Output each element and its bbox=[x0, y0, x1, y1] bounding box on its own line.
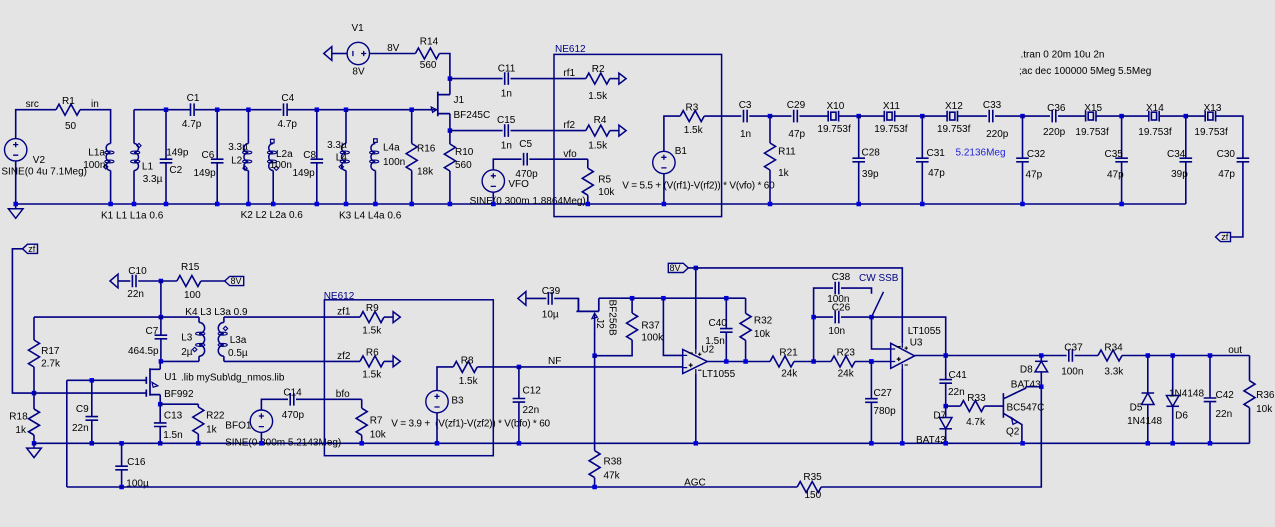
junction U2 V- bottom bbox=[694, 441, 699, 446]
svg-text:J2: J2 bbox=[594, 318, 605, 329]
JFET J2 rotated bbox=[576, 298, 598, 311]
svg-text:C37: C37 bbox=[1064, 342, 1083, 353]
junction L1 bottom bbox=[132, 202, 137, 207]
output port arrow rf1 bbox=[619, 73, 626, 84]
top rail segment C1 to C4 bbox=[195, 109, 282, 111]
svg-text:L2a: L2a bbox=[276, 149, 293, 160]
resistor R5 bbox=[587, 159, 589, 168]
upper rail J2 drain to R32 bbox=[599, 297, 746, 299]
svg-text:R10: R10 bbox=[455, 147, 474, 158]
wire V1 to R14, net 8V bbox=[370, 53, 416, 55]
wire node down to zf1 row bbox=[160, 281, 162, 317]
junction U3 V- bottom bbox=[900, 441, 905, 446]
svg-text:zf2: zf2 bbox=[337, 351, 351, 362]
svg-text:C6: C6 bbox=[202, 150, 215, 161]
pin rf2 bbox=[554, 130, 586, 132]
svg-text:47p: 47p bbox=[788, 129, 805, 140]
junction L2a bottom bbox=[271, 202, 276, 207]
capacitor C15 bbox=[505, 124, 509, 137]
wire X10 to node bbox=[839, 115, 859, 117]
capacitor C11 bbox=[505, 72, 509, 85]
junction C6 bottom bbox=[215, 202, 220, 207]
svg-text:C30: C30 bbox=[1217, 149, 1236, 160]
resistor R32 bbox=[745, 298, 747, 313]
svg-text:V1: V1 bbox=[352, 23, 365, 34]
wire C38 right to switch contact bbox=[841, 288, 872, 294]
svg-text:B1: B1 bbox=[675, 146, 688, 157]
U2 V- to ground bbox=[695, 374, 697, 444]
junction D6 top bbox=[1170, 353, 1175, 358]
switch CW SSB bbox=[872, 292, 884, 317]
wire Q2 collector bbox=[1026, 386, 1042, 388]
svg-text:X14: X14 bbox=[1146, 103, 1164, 114]
junction drain node bbox=[159, 359, 164, 364]
svg-text:LT1055: LT1055 bbox=[908, 326, 942, 337]
capacitor C12 bbox=[518, 367, 520, 398]
wire R15 to 8V flag bbox=[201, 280, 225, 282]
svg-text:K1 L1 L1a 0.6: K1 L1 L1a 0.6 bbox=[101, 210, 164, 221]
capacitor C6 bbox=[211, 159, 224, 163]
svg-text:AGC: AGC bbox=[684, 477, 706, 488]
resistor R6 bbox=[324, 360, 360, 362]
svg-text:D5: D5 bbox=[1130, 402, 1143, 413]
junction C26 left bbox=[811, 315, 816, 320]
diode D7 BAT43 bbox=[939, 418, 952, 429]
wire source node to R22 bbox=[160, 403, 198, 405]
resistor R15 bbox=[161, 280, 177, 282]
svg-text:8V: 8V bbox=[352, 66, 365, 77]
svg-text:NE612: NE612 bbox=[555, 44, 586, 55]
svg-text:NF: NF bbox=[548, 356, 561, 367]
junction C28 bottom bbox=[856, 202, 861, 207]
svg-text:0.5µ: 0.5µ bbox=[228, 348, 248, 359]
inductor L1 bbox=[134, 144, 139, 171]
junction 8V bbox=[694, 266, 699, 271]
junction R16 top bbox=[409, 107, 414, 112]
crystal X14 bbox=[1149, 111, 1159, 122]
junction R5 bottom bbox=[586, 202, 591, 207]
svg-text:R17: R17 bbox=[41, 346, 60, 357]
capacitor C38 bbox=[835, 282, 839, 295]
wire zf to gate1 node bbox=[12, 249, 34, 393]
svg-text:100n: 100n bbox=[1061, 367, 1083, 378]
svg-text:R38: R38 bbox=[604, 456, 623, 467]
svg-text:39p: 39p bbox=[1171, 169, 1188, 180]
port flag at V1 bbox=[324, 47, 332, 61]
wire C14 to R7 (bfo row) bbox=[296, 398, 362, 400]
svg-text:1N4148: 1N4148 bbox=[1127, 416, 1162, 427]
svg-text:560: 560 bbox=[420, 60, 437, 71]
svg-text:C14: C14 bbox=[283, 387, 302, 398]
svg-text:SINE(0 300m 1.8864Meg): SINE(0 300m 1.8864Meg) bbox=[470, 196, 586, 207]
output port arrow zf2 bbox=[393, 356, 400, 367]
junction J2 source/R37 bbox=[592, 353, 597, 358]
svg-text:100k: 100k bbox=[641, 333, 664, 344]
svg-text:L1: L1 bbox=[142, 162, 154, 173]
svg-text:19.753f: 19.753f bbox=[1075, 127, 1109, 138]
junction R22 bottom bbox=[196, 441, 201, 446]
svg-text:C33: C33 bbox=[983, 100, 1002, 111]
junction R16 bottom bbox=[409, 202, 414, 207]
svg-text:V = 3.9 + (V(zf1)-V(zf2)) * V: V = 3.9 + (V(zf1)-V(zf2)) * V(bfo) * 60 bbox=[391, 418, 550, 429]
svg-text:R5: R5 bbox=[598, 175, 611, 186]
svg-text:19.753f: 19.753f bbox=[937, 124, 971, 135]
svg-text:19.753f: 19.753f bbox=[817, 124, 851, 135]
inductor L3a bbox=[218, 322, 224, 356]
svg-text:C38: C38 bbox=[832, 272, 851, 283]
svg-text:R8: R8 bbox=[461, 355, 474, 366]
svg-text:K2 L2 L2a 0.6: K2 L2 L2a 0.6 bbox=[241, 210, 304, 221]
svg-text:R2: R2 bbox=[592, 64, 605, 75]
svg-text:C9: C9 bbox=[76, 404, 89, 415]
capacitor C4 bbox=[284, 103, 288, 116]
wire R4 to port bbox=[610, 130, 619, 132]
svg-text:U2: U2 bbox=[701, 344, 714, 355]
junction C16 bottom bbox=[119, 485, 124, 490]
ground at R18 bbox=[27, 443, 42, 457]
wire V2 top to src/R1 bbox=[16, 110, 56, 139]
capacitor C41 bbox=[945, 356, 947, 380]
svg-text:in: in bbox=[91, 99, 99, 110]
capacitor C31 bbox=[921, 116, 923, 158]
wire to X12 bbox=[922, 115, 947, 117]
port flag at C39 bbox=[518, 292, 526, 306]
inductor L2 bbox=[244, 144, 248, 171]
junction L1a bottom bbox=[108, 202, 113, 207]
svg-text:100n: 100n bbox=[383, 157, 405, 168]
svg-text:B3: B3 bbox=[451, 396, 464, 407]
resistor R17 bbox=[33, 317, 35, 340]
wire R14 to drain node bbox=[439, 54, 450, 79]
svg-text:47p: 47p bbox=[1026, 170, 1043, 181]
resistor R18 bbox=[33, 393, 35, 409]
svg-text:L2: L2 bbox=[231, 155, 243, 166]
junction C8 bottom bbox=[315, 202, 320, 207]
junction C16 top bbox=[119, 441, 124, 446]
junction R21/R23/C38 node bbox=[811, 359, 816, 364]
diode D6 1N4148 bbox=[1172, 356, 1174, 396]
svg-text:470p: 470p bbox=[515, 169, 538, 180]
svg-text:22n: 22n bbox=[948, 387, 965, 398]
resistor R23 bbox=[814, 361, 831, 363]
svg-text:8V: 8V bbox=[387, 43, 400, 54]
resistor R10 bbox=[449, 131, 451, 144]
svg-text:rf1: rf1 bbox=[563, 68, 575, 79]
svg-text:NE612: NE612 bbox=[324, 291, 355, 302]
junction VFO bottom bbox=[491, 202, 496, 207]
junction C7 top bbox=[159, 315, 164, 320]
wire U1 source bbox=[159, 395, 161, 405]
svg-text:R9: R9 bbox=[366, 303, 379, 314]
svg-text:U1: U1 bbox=[164, 372, 177, 383]
svg-text:C39: C39 bbox=[542, 286, 561, 297]
wire C30 down to zf flag bbox=[1231, 162, 1243, 237]
feedback wire to U3 output bbox=[872, 317, 946, 355]
capacitor C29 bbox=[794, 110, 798, 123]
wire port to V1 bbox=[332, 53, 347, 55]
junction C40 bottom bbox=[724, 359, 729, 364]
svg-text:R36: R36 bbox=[1256, 390, 1275, 401]
svg-text:R23: R23 bbox=[837, 347, 856, 358]
svg-text:C32: C32 bbox=[1027, 149, 1046, 160]
wire B3 top to R8 bbox=[437, 367, 453, 391]
wire X11 to node bbox=[895, 115, 923, 117]
wire zf2 L3a to NE612 box 2 bbox=[224, 360, 325, 362]
junction C35 top bbox=[1119, 114, 1124, 119]
resistor R11 bbox=[769, 116, 771, 143]
svg-text:464.5p: 464.5p bbox=[128, 346, 159, 357]
svg-text:V = 5.5 + (V(rf1)-V(rf2)) * V(: V = 5.5 + (V(rf1)-V(rf2)) * V(vfo) * 60 bbox=[622, 180, 775, 191]
svg-text:10k: 10k bbox=[598, 187, 615, 198]
capacitor C7 bbox=[155, 335, 168, 339]
voltage source VFO bbox=[482, 170, 504, 192]
capacitor C8 bbox=[311, 159, 324, 163]
wire port to C39 bbox=[526, 297, 546, 299]
svg-text:out: out bbox=[1228, 345, 1242, 356]
ground at V2 bbox=[8, 204, 23, 218]
junction C12 bottom bbox=[517, 441, 522, 446]
svg-text:C8: C8 bbox=[303, 150, 316, 161]
svg-text:C41: C41 bbox=[949, 370, 968, 381]
svg-text:C34: C34 bbox=[1167, 149, 1186, 160]
junction C6 top bbox=[215, 107, 220, 112]
resistor R7 bbox=[361, 399, 363, 408]
svg-text:R1: R1 bbox=[62, 96, 75, 107]
capacitor C13 bbox=[159, 404, 161, 423]
junction D5 top bbox=[1146, 353, 1151, 358]
resistor R1 bbox=[56, 104, 80, 115]
svg-text:4.7k: 4.7k bbox=[966, 417, 986, 428]
junction C40 top bbox=[724, 296, 729, 301]
junction R37 top bbox=[630, 296, 635, 301]
svg-text:C29: C29 bbox=[787, 100, 806, 111]
svg-text:R6: R6 bbox=[366, 347, 379, 358]
wire C15 to NE612 rf2 bbox=[511, 130, 555, 132]
svg-text:R16: R16 bbox=[417, 144, 436, 155]
inductor L2a bbox=[269, 144, 274, 171]
wire rail to U2 minus input bbox=[663, 298, 682, 355]
wire J2 source down bbox=[594, 314, 596, 356]
svg-text:1n: 1n bbox=[740, 129, 751, 140]
svg-text:3.3µ: 3.3µ bbox=[228, 142, 248, 153]
AGC line right bbox=[821, 387, 1041, 487]
svg-text:;ac dec 100000 5Meg 5.5Meg: ;ac dec 100000 5Meg 5.5Meg bbox=[1019, 66, 1151, 77]
junction R11 top bbox=[768, 114, 773, 119]
svg-text:X12: X12 bbox=[945, 101, 963, 112]
resistor R14 bbox=[415, 48, 439, 59]
capacitor C42 bbox=[1209, 356, 1211, 398]
capacitor C37 bbox=[1069, 349, 1073, 362]
svg-text:19.753f: 19.753f bbox=[874, 124, 908, 135]
svg-text:C2: C2 bbox=[169, 165, 182, 176]
svg-text:1N4148: 1N4148 bbox=[1169, 389, 1204, 400]
out row bbox=[1122, 355, 1250, 357]
junction C12 top bbox=[517, 365, 522, 370]
svg-text:R22: R22 bbox=[206, 411, 225, 422]
wire R6 to port bbox=[384, 360, 393, 362]
svg-text:X11: X11 bbox=[883, 101, 900, 112]
op-amp U2 LT1055 bbox=[683, 349, 708, 373]
junction L4a bottom bbox=[373, 202, 378, 207]
wire C11 to NE612 rf1 bbox=[511, 78, 555, 80]
wire X12 to C33 bbox=[958, 115, 988, 117]
svg-text:47p: 47p bbox=[1218, 169, 1235, 180]
svg-text:C15: C15 bbox=[497, 115, 516, 126]
svg-text:47p: 47p bbox=[928, 168, 945, 179]
net flag 8V left bbox=[225, 276, 244, 285]
wire source to C15 bbox=[450, 130, 503, 132]
junction C41 bottom bbox=[943, 404, 948, 409]
top rail segment L1 to C1 bbox=[134, 109, 191, 111]
wire U1 drain bbox=[159, 361, 161, 369]
junction C32 top bbox=[1020, 114, 1025, 119]
capacitor C27 bbox=[870, 362, 872, 399]
junction C31 bottom bbox=[920, 202, 925, 207]
svg-text:149p: 149p bbox=[293, 168, 316, 179]
svg-text:bfo: bfo bbox=[336, 389, 350, 400]
voltage source V2 bbox=[5, 139, 27, 161]
resistor R33 bbox=[946, 405, 961, 407]
svg-text:.lib mySub\dg_nmos.lib: .lib mySub\dg_nmos.lib bbox=[181, 372, 285, 383]
svg-text:zf: zf bbox=[28, 244, 36, 254]
wire to X11 bbox=[859, 115, 885, 117]
svg-text:R3: R3 bbox=[686, 103, 699, 114]
capacitor C16 bbox=[121, 443, 123, 466]
wire gate1 row bbox=[34, 392, 146, 394]
net flag zf right bbox=[1216, 232, 1231, 241]
svg-text:C7: C7 bbox=[146, 326, 159, 337]
wire X15 to node bbox=[1096, 115, 1122, 117]
capacitor C10 bbox=[132, 275, 136, 288]
svg-text:.tran 0 20m 10u 2n: .tran 0 20m 10u 2n bbox=[1021, 50, 1105, 61]
svg-text:L3a: L3a bbox=[230, 335, 247, 346]
svg-text:BAT43: BAT43 bbox=[916, 435, 946, 446]
svg-text:D7: D7 bbox=[933, 411, 946, 422]
capacitor C40 bbox=[725, 298, 727, 328]
output port arrow zf1 bbox=[393, 312, 400, 323]
svg-text:D8: D8 bbox=[1020, 365, 1033, 376]
junction J1 drain node bbox=[448, 76, 453, 81]
svg-text:22n: 22n bbox=[523, 405, 540, 416]
net flag zf top left bbox=[23, 244, 38, 253]
svg-text:R32: R32 bbox=[754, 315, 773, 326]
svg-text:C42: C42 bbox=[1216, 390, 1235, 401]
svg-text:22n: 22n bbox=[72, 423, 89, 434]
capacitor C32 bbox=[1022, 116, 1024, 158]
resistor R2 bbox=[586, 73, 610, 84]
transistor Q2 BC547C bbox=[1003, 387, 1025, 444]
svg-text:19.753f: 19.753f bbox=[1138, 127, 1172, 138]
junction L2 bottom bbox=[246, 202, 251, 207]
svg-text:1.5k: 1.5k bbox=[588, 91, 608, 102]
svg-text:1n: 1n bbox=[501, 88, 512, 99]
junction C28 top bbox=[856, 114, 861, 119]
resistor R8 bbox=[453, 361, 477, 372]
junction C9 bottom bbox=[90, 441, 95, 446]
resistor R3 bbox=[680, 111, 704, 122]
resistor R22 bbox=[197, 404, 199, 407]
junction C42 top bbox=[1208, 353, 1213, 358]
capacitor C34 bbox=[1185, 116, 1187, 158]
wire BFO1 top to C14 bbox=[261, 399, 288, 410]
svg-text:C27: C27 bbox=[874, 388, 893, 399]
svg-text:3.3µ: 3.3µ bbox=[327, 140, 347, 151]
wire C37 to R34 bbox=[1075, 355, 1098, 357]
svg-text:X10: X10 bbox=[827, 101, 845, 112]
capacitor C26 bbox=[814, 316, 833, 318]
junction D6 bottom bbox=[1170, 441, 1175, 446]
svg-text:zf1: zf1 bbox=[337, 307, 351, 318]
capacitor C33 bbox=[989, 110, 993, 123]
capacitor C5 bbox=[524, 153, 528, 166]
junction C2 top bbox=[164, 107, 169, 112]
svg-text:47p: 47p bbox=[1107, 170, 1124, 181]
svg-text:4.7p: 4.7p bbox=[182, 119, 202, 130]
svg-text:560: 560 bbox=[455, 160, 472, 171]
inductor L1a bbox=[106, 144, 111, 171]
junction C31 top bbox=[920, 114, 925, 119]
junction U3+ node bbox=[869, 359, 874, 364]
svg-text:10k: 10k bbox=[1256, 404, 1273, 415]
svg-text:zf: zf bbox=[1221, 232, 1229, 242]
svg-text:J1: J1 bbox=[454, 95, 465, 106]
svg-text:R34: R34 bbox=[1104, 342, 1123, 353]
crystal X11 bbox=[884, 111, 894, 122]
resistor R38 bbox=[589, 451, 600, 478]
top rail segment C4 to J1 gate bbox=[287, 109, 438, 111]
svg-text:10n: 10n bbox=[828, 326, 845, 337]
NF row bbox=[519, 366, 683, 368]
8V rail bbox=[688, 267, 696, 269]
C38/C26 left vertical bbox=[814, 288, 833, 361]
svg-text:220p: 220p bbox=[986, 129, 1009, 140]
behavioral source B1 bbox=[653, 151, 675, 173]
svg-text:VFO: VFO bbox=[508, 179, 529, 190]
wire X13 to C30 bbox=[1216, 116, 1243, 158]
resistor R36 bbox=[1249, 356, 1251, 381]
wire B3 bottom bbox=[436, 413, 438, 444]
bottom bus of input filter bbox=[16, 203, 1186, 205]
svg-text:39p: 39p bbox=[862, 169, 879, 180]
wire R2 to port bbox=[610, 78, 619, 80]
wire C7 bottom to L3 bbox=[161, 360, 199, 362]
svg-text:1.5k: 1.5k bbox=[362, 370, 382, 381]
svg-text:24k: 24k bbox=[838, 369, 855, 380]
resistor R21 bbox=[770, 356, 794, 367]
junction U1 source node bbox=[158, 402, 163, 407]
svg-text:X15: X15 bbox=[1084, 103, 1102, 114]
svg-text:1.5k: 1.5k bbox=[588, 140, 608, 151]
inductor L4 bbox=[342, 144, 346, 171]
junction U3 output node bbox=[943, 353, 948, 358]
wire R23 to U3+ node bbox=[855, 361, 871, 363]
junction C2 bottom bbox=[164, 202, 169, 207]
op-amp U3 LT1055 bbox=[891, 343, 915, 368]
junction C8 top bbox=[315, 107, 320, 112]
svg-text:10µ: 10µ bbox=[542, 309, 559, 320]
svg-text:R18: R18 bbox=[9, 411, 28, 422]
wire BFO1 bottom bbox=[260, 432, 262, 443]
svg-text:rf2: rf2 bbox=[563, 120, 575, 131]
svg-text:L4a: L4a bbox=[383, 142, 400, 153]
wire to U3 plus input bbox=[871, 361, 890, 363]
svg-text:2µ: 2µ bbox=[181, 347, 193, 358]
wire C3 to node bbox=[749, 115, 770, 117]
crystal X15 bbox=[1086, 111, 1096, 122]
junction C27 top bbox=[869, 359, 874, 364]
junction C13 bottom bbox=[158, 441, 163, 446]
wire C29 to X10 bbox=[800, 115, 829, 117]
